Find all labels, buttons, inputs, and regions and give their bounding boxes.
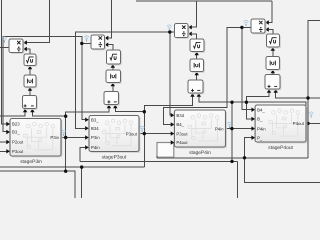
wire (115, 105, 144, 112)
wire (246, 90, 269, 102)
wire (272, 73, 274, 75)
node P4out-a (306, 122, 309, 125)
logging badge S1 (61, 130, 66, 133)
node P3in-c (64, 170, 67, 173)
node P4out-mid (306, 96, 309, 99)
product block G2 (x divide) (92, 36, 106, 50)
wire (144, 94, 192, 112)
svg-text:P4out: P4out (293, 121, 305, 126)
svg-text:stageP4in: stageP4in (189, 150, 211, 156)
abs block G4 (267, 58, 281, 71)
wire (61, 137, 66, 139)
wire (232, 101, 246, 103)
wire (26, 0, 50, 43)
wire (112, 86, 114, 92)
wire (269, 30, 273, 35)
wire (308, 122, 320, 124)
wire (3, 36, 82, 131)
node P4in-b (230, 127, 233, 130)
wire (237, 161, 239, 198)
wire (196, 55, 198, 59)
wire (308, 21, 320, 124)
sqrt block G2 (108, 51, 122, 65)
abs block G2 (107, 71, 122, 84)
svg-text:P3in: P3in (50, 135, 59, 140)
logging badge G4 (244, 20, 249, 23)
svg-text:P4in: P4in (91, 145, 100, 150)
subsystem block stageP4out (255, 105, 307, 151)
wire (82, 42, 91, 44)
wire (272, 51, 274, 57)
node P4in-d (245, 101, 248, 104)
svg-text:P4in: P4in (257, 126, 266, 131)
node P3in-b (64, 136, 67, 139)
wire (156, 156, 158, 158)
wire (246, 102, 251, 119)
wire (276, 90, 308, 98)
node P3in-a (64, 115, 67, 118)
wire (163, 27, 242, 124)
svg-text:P3in: P3in (91, 135, 100, 140)
wire (2, 0, 7, 124)
small connector block feeding stage3 P4out (157, 143, 174, 158)
wire (242, 26, 251, 28)
sum block G4 (+ -) (266, 76, 281, 91)
wire (108, 45, 113, 50)
wire (0, 141, 7, 143)
wire (143, 134, 145, 168)
svg-text:P3out: P3out (176, 131, 188, 136)
wire (75, 32, 169, 128)
wire (27, 49, 30, 54)
sum block G3 (+ -) (189, 81, 204, 94)
wire (199, 94, 232, 102)
wire (170, 32, 171, 115)
abs block G1 (25, 76, 37, 88)
logging badge G1 (2, 37, 7, 40)
wire (226, 128, 232, 130)
wire (157, 157, 308, 159)
node L2-branch (80, 165, 83, 168)
svg-text:B34: B34 (91, 126, 99, 131)
logging badge S4 (309, 112, 314, 115)
svg-text:B23: B23 (12, 122, 20, 127)
svg-text:stageP3in: stageP3in (20, 159, 42, 165)
wire (0, 109, 25, 116)
wire (306, 122, 308, 124)
wire (65, 138, 67, 172)
abs block G3 (191, 60, 205, 73)
logging badge G2 (84, 36, 89, 39)
node product3-out (168, 30, 171, 33)
wire (0, 171, 75, 198)
sqrt block G1 (25, 55, 37, 67)
wire (307, 123, 309, 157)
wire (144, 133, 171, 135)
wire (245, 158, 320, 183)
wire (0, 46, 9, 48)
wire (245, 138, 252, 158)
node P4in-a (230, 101, 233, 104)
svg-text:P3out: P3out (126, 131, 138, 136)
svg-text:B4_: B4_ (176, 122, 184, 127)
wire (232, 128, 252, 130)
wire (80, 147, 85, 161)
svg-text:B34: B34 (176, 113, 184, 118)
node product4-out (240, 26, 243, 29)
wire (108, 0, 112, 38)
svg-text:B_: B_ (257, 117, 263, 122)
node product2-out (80, 42, 83, 45)
wire (29, 91, 31, 96)
node P4in-c (230, 160, 233, 163)
wire (112, 68, 114, 71)
sum block G1 (+ -) (24, 97, 38, 110)
sqrt block G4 (268, 35, 281, 48)
wire (0, 150, 7, 152)
wire (191, 1, 196, 27)
svg-text:B3_: B3_ (12, 130, 20, 135)
wire (196, 75, 198, 80)
wire (0, 166, 144, 168)
product block G4 (x divide) (252, 20, 266, 34)
node P3out-b (143, 132, 146, 135)
node P4out-b (243, 156, 246, 159)
wire (66, 137, 86, 139)
wire (81, 167, 83, 198)
wire (231, 129, 233, 162)
product block G3 (x divide) (176, 25, 190, 39)
subsystem block stageP3in (10, 119, 62, 165)
wire (268, 1, 272, 23)
svg-text:B3_: B3_ (91, 117, 99, 122)
logging badge G3 (167, 25, 172, 28)
product block G1 (x divide) (10, 40, 24, 54)
svg-text:B4_: B4_ (257, 107, 265, 112)
wire (139, 133, 144, 135)
wire (170, 31, 175, 33)
wire (192, 34, 197, 39)
sum block G2 (+ -) (105, 93, 120, 106)
svg-text:stageP4out: stageP4out (268, 145, 293, 151)
svg-text:P_: P_ (257, 135, 263, 140)
wire (80, 160, 238, 162)
svg-text:P2out: P2out (12, 140, 24, 145)
svg-text:stageP3out: stageP3out (102, 154, 127, 160)
wire (66, 105, 109, 116)
wire (136, 0, 272, 2)
svg-text:P4in: P4in (215, 126, 224, 131)
wire (32, 109, 65, 116)
node P3out-a (143, 110, 146, 113)
sqrt block G3 (191, 40, 205, 53)
arrows into ports (6, 20, 269, 153)
wire (65, 116, 67, 137)
wire (82, 43, 85, 119)
wire (308, 97, 320, 99)
svg-text:P3out: P3out (12, 149, 24, 154)
logging badge S2 (140, 126, 145, 129)
subsystem block stageP4in (174, 110, 227, 156)
logging badge S3 (227, 122, 232, 125)
wire (242, 27, 252, 109)
wire (231, 102, 233, 128)
wire (143, 112, 145, 134)
svg-text:P4out: P4out (176, 140, 188, 145)
wire (246, 102, 305, 105)
wire (29, 69, 31, 75)
subsystem block stageP3out (89, 116, 140, 161)
